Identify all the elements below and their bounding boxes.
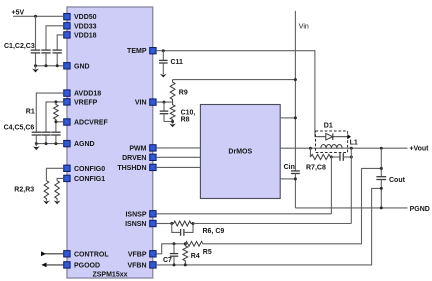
- svg-text:PWM: PWM: [129, 145, 146, 152]
- junction SW/R7 stub: [309, 147, 312, 150]
- junction C5 rail: [45, 142, 48, 145]
- svg-text:DrMOS: DrMOS: [228, 149, 252, 156]
- wire ISNSN left: [156, 223, 172, 225]
- pin CONFIG0: [64, 165, 106, 173]
- svg-text:CONTROL: CONTROL: [74, 251, 109, 258]
- wire ADCVREF to R1/C6: [56, 122, 64, 132]
- wire VFBP sense: [203, 168, 381, 243]
- svg-text:AGND: AGND: [74, 141, 95, 148]
- ground symbol top-left: [32, 66, 39, 73]
- wire DrMOS pgnd: [280, 178, 295, 180]
- junction DrMOS-pgnd/Cin: [294, 177, 297, 180]
- resistor R7: [310, 154, 331, 159]
- svg-text:PGND: PGND: [410, 206, 430, 213]
- DrMOS U2 body: [200, 105, 280, 199]
- junction C8/ISNSN riser: [350, 156, 353, 159]
- wire ISNSP: [156, 213, 331, 215]
- capacitor C5: [41, 132, 50, 143]
- wire VFBP jog: [156, 244, 185, 254]
- wire +5V to VDD50: [13, 15, 64, 17]
- wire C1 drop: [35, 16, 37, 49]
- pin DRVEN: [122, 154, 156, 162]
- pin PGOOD: [64, 262, 100, 270]
- wire CONFIG0 to R2: [46, 168, 63, 180]
- junction Cout/PGND: [380, 206, 383, 209]
- pin VDD33: [64, 23, 97, 31]
- ground symbol analog: [33, 144, 40, 151]
- resistor R6: [172, 221, 193, 226]
- svg-text:ISNSP: ISNSP: [125, 211, 146, 218]
- resistor R8: [170, 102, 175, 124]
- svg-text:R1: R1: [26, 108, 35, 115]
- pin CONTROL: [64, 251, 110, 259]
- svg-text:R6, C9: R6, C9: [203, 228, 225, 235]
- wire AVDD18 to C4: [36, 93, 63, 132]
- svg-text:+5V: +5V: [12, 10, 25, 17]
- junction C7 bottom: [173, 263, 176, 266]
- svg-text:Cout: Cout: [389, 177, 406, 184]
- svg-text:C10,: C10,: [181, 109, 196, 116]
- svg-text:AVDD18: AVDD18: [74, 91, 101, 98]
- wire VFBN sense: [156, 188, 381, 265]
- ground symbol R3: [54, 200, 61, 204]
- resistor R2: [44, 181, 49, 201]
- svg-text:THSHDN: THSHDN: [117, 165, 146, 172]
- junction C1 rail: [34, 64, 37, 67]
- junction VIN/C10: [163, 101, 166, 104]
- svg-text:C4,C5,C6: C4,C5,C6: [4, 125, 35, 132]
- junction R4 top: [184, 242, 187, 245]
- wire R9 top to Vin: [173, 79, 296, 81]
- pin VDD18: [64, 32, 97, 40]
- IC U1 ZSPM15xx body: [67, 7, 153, 279]
- svg-text:R2,R3: R2,R3: [14, 187, 34, 194]
- svg-text:R5: R5: [203, 249, 212, 256]
- wire ISNSP riser: [330, 157, 332, 214]
- junction main/Cout: [380, 147, 383, 150]
- svg-text:L1: L1: [350, 140, 358, 147]
- capacitor Cin: [291, 171, 300, 208]
- capacitor C2: [41, 50, 50, 66]
- wire AGND rail: [36, 143, 63, 145]
- thermal arrow to L1: [347, 134, 351, 139]
- wire DrMOS vin input: [280, 117, 295, 119]
- pin AVDD18: [64, 90, 102, 98]
- svg-text:VDD33: VDD33: [74, 23, 97, 30]
- svg-text:R7,C8: R7,C8: [306, 164, 326, 171]
- resistor R3: [55, 181, 60, 201]
- pin ISNSN: [125, 220, 156, 228]
- wire DRVEN to DrMOS: [156, 156, 200, 158]
- svg-text:C11: C11: [171, 59, 184, 66]
- junction ADCVREF/R1: [54, 120, 57, 123]
- junction C2 rail: [45, 64, 48, 67]
- svg-text:VDD18: VDD18: [74, 32, 97, 39]
- junction +5V/C1: [34, 15, 37, 18]
- pin VREFP: [64, 99, 98, 107]
- svg-text:C7: C7: [163, 257, 172, 264]
- pin GND: [64, 63, 90, 71]
- junction TEMP/C11: [162, 49, 165, 52]
- pin TEMP: [127, 48, 156, 56]
- wire PGOOD with output arrow: [41, 263, 63, 268]
- pin VFBN: [127, 262, 156, 270]
- wire VREFP to C5: [46, 102, 64, 132]
- svg-text:ZSPM15xx: ZSPM15xx: [92, 272, 127, 279]
- capacitor C7: [170, 244, 178, 265]
- junction DrMOS-vin/Vin: [294, 116, 297, 119]
- pin VFBP: [128, 251, 156, 259]
- resistor R5: [185, 241, 203, 246]
- wire VDD18 to C3: [57, 35, 64, 50]
- wire TEMP net: [156, 51, 315, 137]
- svg-text:CONFIG1: CONFIG1: [74, 176, 105, 183]
- wire ISNSN right: [193, 223, 351, 225]
- wire PWM to DrMOS: [156, 147, 200, 149]
- capacitor C8: [331, 153, 351, 161]
- svg-text:R4: R4: [191, 253, 200, 260]
- wire GND rail: [36, 65, 64, 67]
- pin PWM: [129, 145, 156, 153]
- ground symbol C11: [160, 74, 167, 78]
- pin ISNSP: [125, 211, 156, 219]
- svg-text:VDD50: VDD50: [74, 14, 97, 21]
- capacitor C11: [159, 51, 168, 74]
- svg-text:VREFP: VREFP: [74, 99, 98, 106]
- svg-text:C1,C2,C3: C1,C2,C3: [4, 43, 35, 50]
- junction VREFP/R1: [54, 100, 57, 103]
- junction C7 top: [173, 242, 176, 245]
- junction C4 rail: [35, 142, 38, 145]
- junction C3 rail: [56, 64, 59, 67]
- svg-text:+Vout: +Vout: [409, 146, 429, 153]
- svg-text:DRVEN: DRVEN: [122, 155, 146, 162]
- svg-text:VFBN: VFBN: [127, 262, 146, 269]
- junction VFBN/Cout bottom: [380, 187, 383, 190]
- junction R8/C10 bottom: [171, 120, 174, 123]
- diode D1: [315, 133, 348, 140]
- svg-text:ISNSN: ISNSN: [125, 221, 146, 228]
- ground symbol R2: [43, 200, 50, 204]
- junction C6 rail: [54, 142, 57, 145]
- svg-text:CONFIG0: CONFIG0: [74, 166, 105, 173]
- capacitor C9: [172, 224, 193, 236]
- junction R4 bottom: [184, 263, 187, 266]
- capacitor C1: [31, 50, 40, 66]
- capacitor C6: [51, 132, 60, 143]
- svg-text:ADCVREF: ADCVREF: [74, 120, 109, 127]
- svg-text:TEMP: TEMP: [127, 48, 147, 55]
- label C10, R8: [181, 109, 196, 123]
- ground symbol R8: [169, 123, 176, 127]
- svg-text:PGOOD: PGOOD: [74, 262, 100, 269]
- dashed thermal box D1/L1: [316, 131, 348, 153]
- junction VFBP/Cout top: [380, 167, 383, 170]
- svg-text:R9: R9: [179, 90, 188, 97]
- svg-text:GND: GND: [74, 63, 90, 70]
- svg-text:Vin: Vin: [299, 24, 309, 31]
- wire PGND rail: [295, 207, 407, 209]
- junction R9/Vin: [294, 78, 297, 81]
- pin AGND: [64, 140, 95, 148]
- pin THSHDN: [117, 164, 156, 172]
- capacitor C3: [53, 50, 62, 66]
- wire VIN pin to R9: [156, 101, 173, 103]
- wire VDD33 to C2: [46, 26, 64, 50]
- junction R7/C8/ISNSP: [330, 156, 333, 159]
- svg-text:D1: D1: [324, 123, 333, 130]
- resistor R4: [183, 244, 188, 265]
- wire R7 stub: [309, 148, 311, 157]
- capacitor C10: [160, 102, 173, 121]
- pin VDD50: [64, 14, 97, 22]
- svg-text:Cin: Cin: [284, 164, 295, 171]
- wire ISNSN riser: [350, 148, 352, 223]
- wire Vin vertical upper: [294, 11, 296, 171]
- svg-text:VFBP: VFBP: [128, 251, 147, 258]
- capacitor Cout: [376, 148, 386, 208]
- inductor L1 coil: [321, 145, 342, 149]
- pin ADCVREF: [64, 119, 109, 127]
- junction SW line/ISNSN riser: [350, 147, 353, 150]
- capacitor C4: [32, 132, 41, 143]
- resistor R1: [54, 102, 59, 122]
- junction R6/C9 left: [170, 222, 173, 225]
- svg-text:R8: R8: [181, 116, 190, 123]
- wire THSHDN to DrMOS: [156, 166, 200, 168]
- pin VIN: [135, 99, 156, 107]
- junction R6/C9 right: [192, 222, 195, 225]
- wire CONFIG1 to R3: [57, 178, 64, 180]
- wire SW to +Vout main line: [280, 147, 407, 149]
- svg-text:VIN: VIN: [135, 100, 147, 107]
- pin CONFIG1: [64, 175, 106, 183]
- wire CONTROL with input arrow: [41, 251, 64, 256]
- resistor R9: [170, 80, 175, 103]
